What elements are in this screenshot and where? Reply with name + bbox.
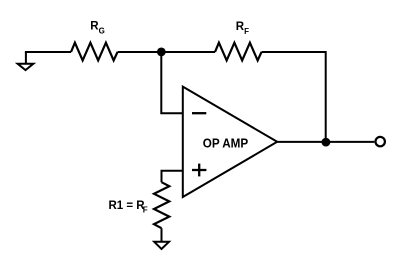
label R1 = RF [109, 200, 148, 215]
minus input symbol [192, 112, 206, 114]
ground GND1 (left) [18, 52, 34, 70]
resistor RF [215, 43, 262, 61]
op-amp U1 [183, 87, 277, 197]
svg-text:OP AMP: OP AMP [203, 135, 249, 150]
resistor RG [71, 43, 118, 61]
svg-text:G: G [99, 26, 105, 35]
output terminal (open circle) [376, 137, 385, 146]
wire: left ground to RG [25, 51, 71, 53]
wire: RG to RF [118, 51, 216, 53]
node B (output junction with feedback) [322, 138, 331, 147]
wire: R1 to ground GND2 [161, 228, 163, 242]
ground GND2 (bottom) [154, 242, 169, 249]
wire: RF to feedback corner, down to output node [262, 52, 326, 142]
wire: op-amp output to terminal [277, 141, 374, 143]
label RF [236, 21, 249, 36]
wire: non-inverting input to R1 [162, 171, 183, 182]
wire: node A down and right to inverting input [161, 52, 183, 113]
plus input symbol [192, 169, 206, 171]
svg-text:R1 = R: R1 = R [109, 200, 146, 212]
node A (junction of RG, RF, inverting input) [157, 48, 166, 57]
svg-text:F: F [244, 27, 249, 36]
label RG [90, 21, 105, 36]
svg-text:F: F [143, 206, 148, 215]
resistor R1 (vertical) [154, 182, 169, 228]
